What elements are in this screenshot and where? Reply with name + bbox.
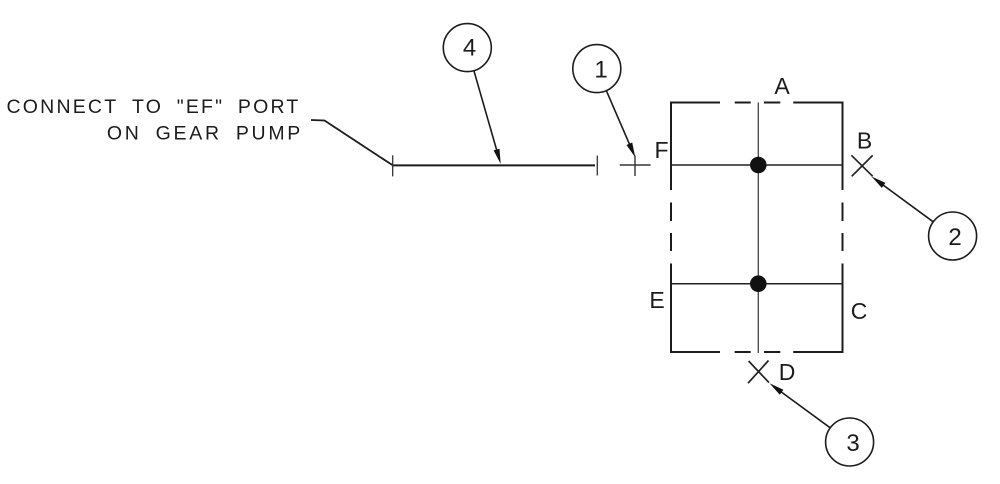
tick right end of hose [596, 156, 598, 176]
svg-text:CONNECT TO "EF" PORT: CONNECT TO "EF" PORT [7, 96, 301, 118]
svg-text:A: A [774, 73, 790, 99]
internal vertical gallery A-D [757, 103, 759, 354]
svg-text:ON GEAR PUMP: ON GEAR PUMP [107, 123, 303, 145]
leader from note text [311, 120, 393, 165]
manifold block left edge (dashed) [670, 102, 672, 354]
svg-text:E: E [649, 287, 664, 313]
leader arrow 2 [883, 185, 933, 222]
plug X at port B [851, 155, 872, 176]
leader arrow 3 [781, 392, 830, 428]
svg-text:C: C [851, 298, 868, 324]
svg-text:D: D [779, 359, 796, 385]
svg-text:F: F [654, 137, 668, 163]
svg-text:1: 1 [594, 57, 607, 84]
svg-text:2: 2 [948, 224, 961, 251]
manifold block top edge (dashed) [670, 102, 844, 104]
internal horizontal gallery E-C [671, 283, 843, 285]
note text CONNECT TO "EF" PORT ON GEAR PUMP [7, 96, 303, 145]
plug X at port D [749, 361, 769, 383]
internal horizontal gallery F-B [671, 164, 843, 166]
manifold block bottom edge (dashed) [670, 351, 844, 353]
balloon 4 [443, 24, 491, 72]
leader arrow 4 [474, 71, 497, 151]
balloon 3 [826, 418, 874, 466]
svg-text:4: 4 [463, 35, 476, 62]
leader arrow 1 [606, 91, 629, 145]
balloon 1 [573, 45, 621, 93]
svg-text:B: B [857, 128, 872, 154]
item 4 hose line [393, 164, 595, 166]
junction node lower [750, 275, 767, 292]
tick left end of hose [392, 155, 394, 176]
item 1 fitting cross [620, 164, 651, 166]
svg-text:3: 3 [846, 430, 859, 457]
manifold block right edge (dashed) [842, 102, 844, 354]
balloon 2 [929, 212, 977, 260]
junction node upper [750, 157, 767, 174]
